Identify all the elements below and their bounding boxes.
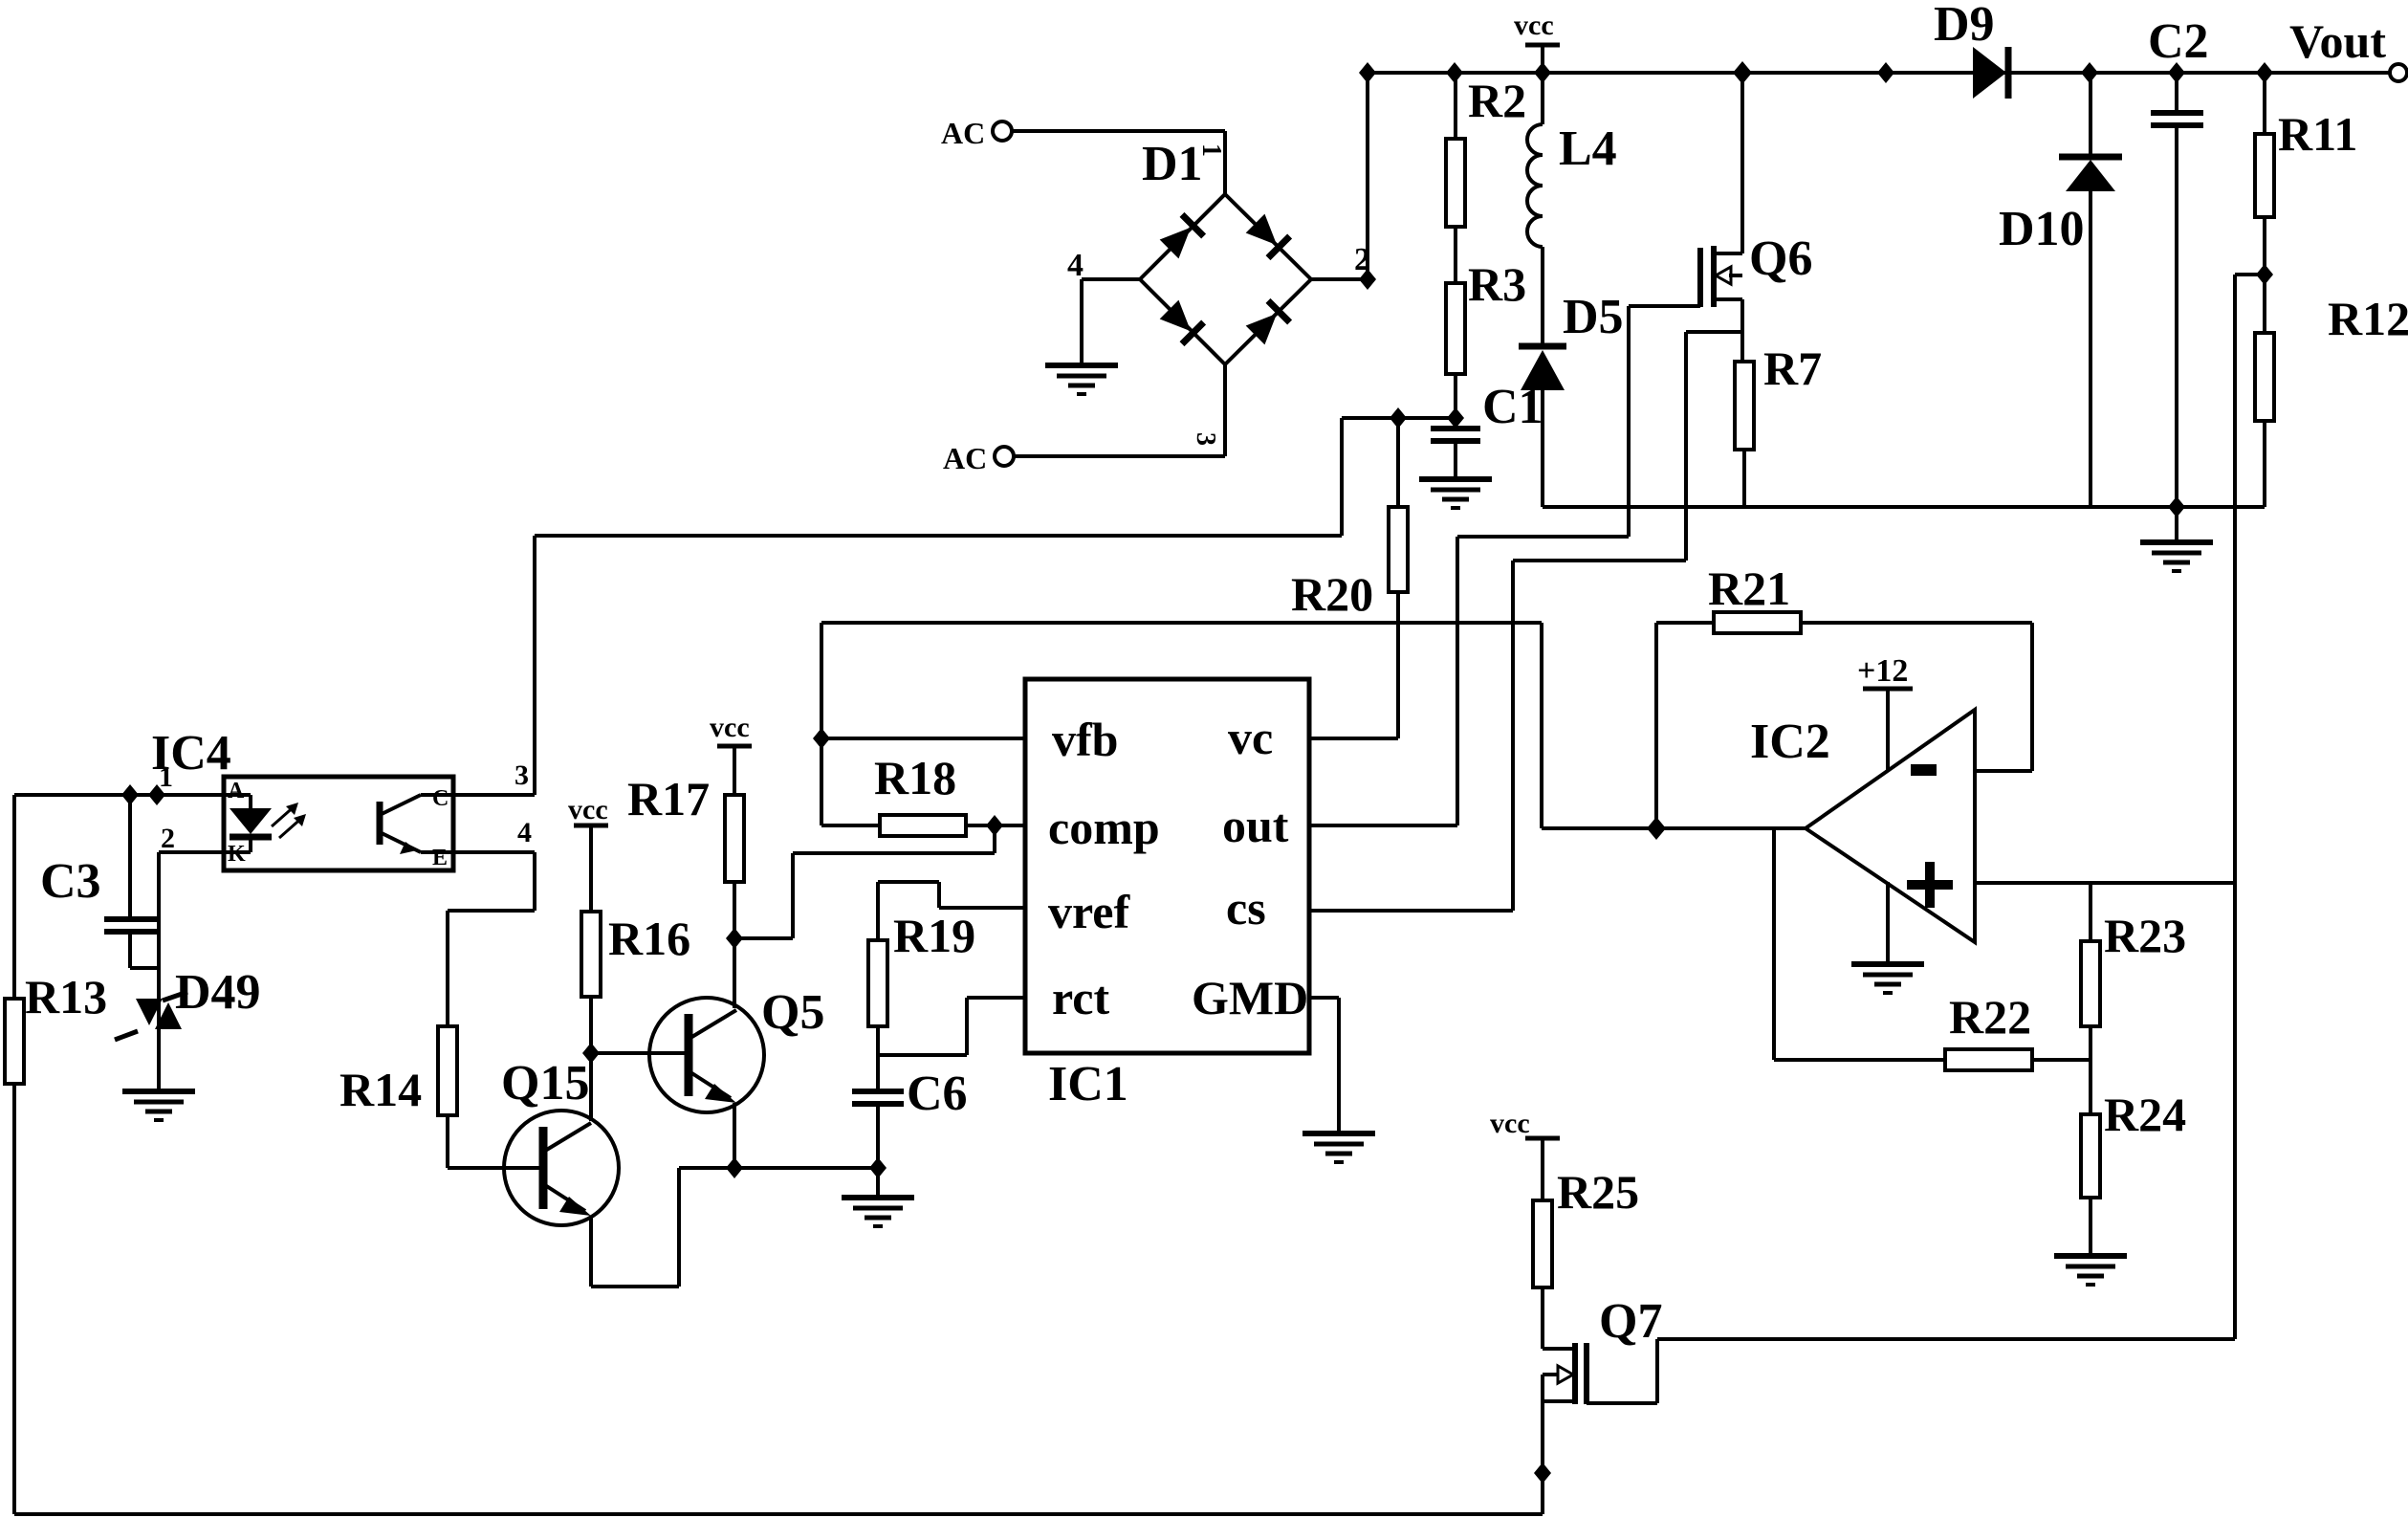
svg-text:R18: R18 [874, 751, 956, 804]
svg-text:D10: D10 [1999, 202, 2085, 256]
wire Q15 collector to Q5 base [591, 1051, 686, 1055]
resistor R20 [1291, 418, 1408, 738]
junction Q7-rail [1534, 1463, 1551, 1484]
bridge diode D1b top-right [1244, 212, 1289, 257]
svg-text:4: 4 [1067, 248, 1084, 283]
svg-text:vcc: vcc [710, 712, 750, 743]
capacitor C6 [852, 1067, 968, 1168]
bridge diode D1c bottom-left [1158, 298, 1203, 343]
resistor R25 [1533, 1138, 1639, 1349]
resistor R14 [339, 911, 457, 1168]
inductor L4 [1527, 73, 1617, 247]
svg-text:+12: +12 [1857, 653, 1908, 689]
svg-text:R25: R25 [1557, 1165, 1639, 1219]
junction bus-D10 [2081, 62, 2098, 83]
IC2 ground stem [1886, 882, 1890, 964]
wire Q6 gate lead [1629, 304, 1700, 308]
wire bridge pin4 out [1082, 277, 1140, 281]
svg-text:4: 4 [517, 817, 532, 848]
resistor R2 [1446, 73, 1526, 227]
svg-text:R22: R22 [1949, 990, 2031, 1044]
wire vcc stem [1541, 45, 1544, 73]
capacitor C2 [2148, 14, 2209, 507]
svg-text:3: 3 [514, 759, 529, 791]
wire divider feedback drop [2233, 275, 2237, 1339]
bottom return rail [14, 1512, 1543, 1516]
node 1 wire [14, 793, 224, 797]
svg-text:C2: C2 [2148, 14, 2209, 69]
IC4 pin3 wire to C1 node [453, 793, 535, 797]
svg-text:R24: R24 [2104, 1088, 2186, 1141]
zener D49 [115, 852, 261, 1091]
svg-text:C6: C6 [907, 1067, 968, 1121]
svg-text:R3: R3 [1468, 257, 1526, 311]
transistor Q15 [501, 1056, 619, 1225]
R22 left riser [1772, 828, 1776, 1060]
resistor R18 [821, 751, 995, 836]
svg-text:comp: comp [1048, 801, 1160, 854]
junction comp-node [986, 815, 1003, 836]
svg-text:R2: R2 [1468, 74, 1526, 127]
junction bus-a [1877, 62, 1894, 83]
transistor Q7 (MOSFET) [1543, 1294, 1662, 1404]
svg-text:vcc: vcc [568, 794, 608, 825]
wire Q5 collector [733, 938, 736, 1008]
svg-text:vfb: vfb [1052, 713, 1118, 766]
wire L4 to D5 [1541, 247, 1544, 346]
wire Q6 source [1740, 299, 1744, 362]
resistor R22 [1774, 990, 2091, 1070]
junction C1-node [1447, 407, 1464, 429]
R21 left drop to output node [1654, 623, 1658, 828]
svg-text:IC2: IC2 [1750, 715, 1830, 769]
wire bridge pin2 to riser [1311, 277, 1368, 281]
svg-text:vref: vref [1048, 885, 1130, 938]
svg-text:R7: R7 [1763, 341, 1822, 395]
R21 right to inverting input [2030, 623, 2034, 771]
R19 to C6 [876, 1026, 880, 1091]
svg-text:rct: rct [1052, 971, 1109, 1024]
resistor R7 [1735, 341, 1822, 507]
svg-text:C3: C3 [40, 854, 101, 909]
svg-text:Q6: Q6 [1749, 231, 1812, 286]
IC1 pin labels [1048, 711, 1308, 1024]
junction n1-C3 [121, 784, 139, 805]
junction C1wire-R20 [1390, 407, 1407, 429]
wire AC1 to bridge [1012, 129, 1225, 133]
ground C1 [1419, 479, 1492, 508]
svg-text:R21: R21 [1708, 561, 1790, 615]
IC4 light arrows [272, 803, 306, 838]
ground D49 [122, 1091, 195, 1120]
resistor R19 [868, 909, 975, 1026]
svg-text:3: 3 [1191, 432, 1220, 446]
junction n1-b [148, 784, 165, 805]
wire D5 to rail [1541, 390, 1544, 507]
svg-text:R23: R23 [2104, 909, 2186, 962]
transistor Q6 (MOSFET) [1700, 231, 1812, 307]
resistor R23 [2081, 883, 2186, 1060]
Q7 gate wire to divider [1587, 1401, 1657, 1405]
svg-text:vc: vc [1228, 711, 1273, 764]
IC4 pin numbers [159, 759, 532, 854]
wire IC4 pin2 [159, 850, 224, 854]
bridge rectifier D1 outline [1140, 137, 1311, 364]
IC U IC1 box [1025, 679, 1309, 1111]
vfb feedback riser [820, 623, 823, 825]
wire Q5 emitter [733, 1103, 736, 1168]
svg-text:R17: R17 [627, 772, 710, 825]
op-amp IC2 [1750, 710, 1975, 942]
wire Q15 collector [589, 1053, 593, 1121]
junction C6-gnd [869, 1157, 887, 1178]
ground C6 [842, 1198, 914, 1226]
emitter common wire [679, 1166, 878, 1170]
IC4 pin4 wire to R14 [453, 850, 535, 854]
rct wire [967, 996, 1025, 1000]
power +12 [1857, 653, 1913, 770]
junction vfb-node [813, 728, 830, 749]
resistor R16 [581, 825, 690, 1053]
svg-text:R14: R14 [339, 1063, 422, 1116]
resistor R11 [2255, 73, 2357, 275]
svg-text:vcc: vcc [1490, 1108, 1530, 1139]
capacitor C1 [1431, 380, 1543, 479]
cs wire to Q6 source [1309, 909, 1513, 913]
terminal AC top [941, 116, 1012, 150]
junction bus-left [1359, 62, 1376, 83]
wire AC2 to bridge [1014, 454, 1225, 458]
svg-text:D9: D9 [1934, 0, 1995, 52]
vfb wire [821, 737, 1025, 740]
power vcc R17 [710, 712, 752, 746]
IC4 phototransistor [380, 786, 453, 870]
wire riser to top bus [1366, 73, 1369, 279]
transistor Q5 [649, 985, 824, 1112]
junction bus-L4 [1534, 62, 1551, 83]
wire divider jog [2235, 273, 2265, 276]
resistor R13 [5, 795, 107, 1514]
wire R2-R3 link [1454, 227, 1457, 283]
resistor R12 [2255, 275, 2408, 507]
wire top bus VCC rail [1368, 71, 2391, 75]
junction Q5c-R17 [726, 928, 743, 949]
wire bridge pin3 rise [1223, 364, 1227, 456]
svg-text:Vout: Vout [2289, 14, 2386, 68]
svg-text:D5: D5 [1563, 290, 1624, 344]
svg-text:1: 1 [159, 761, 173, 793]
Q7 body/source to bottom rail [1541, 1375, 1544, 1514]
svg-text:R19: R19 [893, 909, 975, 962]
vref wire [939, 906, 1025, 910]
svg-text:Q5: Q5 [761, 985, 824, 1040]
svg-text:cs: cs [1226, 881, 1266, 935]
ground bridge [1045, 365, 1118, 394]
junction bus-C2 [2168, 62, 2185, 83]
svg-text:R11: R11 [2278, 107, 2357, 161]
junction out-node-ic2 [1647, 817, 1666, 840]
bridge pin labels [1067, 143, 1370, 446]
svg-text:D1: D1 [1142, 137, 1203, 191]
svg-text:out: out [1222, 799, 1289, 852]
junction bus-R2 [1446, 62, 1463, 83]
diode D9 [1934, 0, 2008, 99]
plus input wire [1975, 881, 2235, 885]
wire Q5 collector to comp [734, 936, 793, 940]
junction bus-Q6 [1733, 61, 1752, 84]
IC4 LED [224, 779, 272, 867]
resistor R3 [1446, 257, 1526, 418]
capacitor C3 [40, 795, 159, 968]
svg-text:K: K [228, 842, 246, 867]
ground IC2 [1851, 964, 1924, 993]
comp wire [995, 824, 1025, 827]
power vcc top [1514, 10, 1560, 45]
svg-text:IC1: IC1 [1048, 1057, 1128, 1111]
bridge diode D1a top-left [1158, 214, 1203, 259]
svg-text:vcc: vcc [1514, 10, 1554, 41]
ground IC1 [1303, 1133, 1375, 1162]
svg-text:R16: R16 [608, 912, 690, 965]
svg-text:R13: R13 [25, 970, 107, 1023]
junction C2-gnd [2168, 496, 2185, 517]
optocoupler IC4 [151, 726, 453, 870]
vfb long wire to IC2 [821, 621, 1542, 625]
wire R14 to Q15 base [448, 1166, 540, 1170]
ground R24 [2054, 1256, 2127, 1285]
svg-text:1: 1 [1196, 143, 1226, 157]
svg-text:Q7: Q7 [1599, 1294, 1662, 1349]
wire C2 gnd stem [2175, 507, 2178, 542]
svg-text:C: C [432, 786, 449, 811]
wire Q6 drain [1740, 73, 1744, 253]
junction bus-R11 [2256, 62, 2273, 83]
svg-text:R20: R20 [1291, 567, 1373, 621]
wire C6 gnd stem [876, 1168, 880, 1198]
power vcc R16 [568, 794, 608, 825]
resistor R21 [1656, 561, 2032, 633]
svg-text:L4: L4 [1559, 121, 1617, 176]
wire bridge pin1 drop [1223, 131, 1227, 194]
junction R11-R12 [2256, 264, 2273, 285]
resistor R24 [2081, 1060, 2186, 1253]
svg-text:E: E [432, 846, 448, 870]
svg-text:D49: D49 [175, 965, 261, 1020]
svg-text:GMD: GMD [1192, 971, 1308, 1024]
junction bridge-2 [1359, 269, 1376, 290]
svg-text:AC: AC [941, 116, 985, 150]
bridge diode D1d bottom-right [1244, 300, 1289, 345]
GMD ground wire [1309, 996, 1339, 1000]
diode D10 [1999, 73, 2122, 507]
Q15 emitter path [589, 1216, 593, 1287]
svg-text:2: 2 [161, 823, 175, 854]
vc wire to R20 [1309, 737, 1398, 740]
wire secondary rail [1543, 505, 2265, 509]
junction Q15c-R16 [582, 1043, 600, 1064]
ground C2 [2140, 542, 2213, 571]
svg-text:AC: AC [943, 441, 987, 475]
svg-text:R12: R12 [2328, 292, 2408, 345]
diode D5 [1519, 290, 1624, 390]
wire bridge pin4 drop [1080, 279, 1084, 363]
junction Q5e [726, 1157, 743, 1178]
terminal Vout [2289, 14, 2407, 81]
svg-text:A: A [228, 779, 245, 803]
out wire to Q6 gate [1309, 824, 1457, 827]
resistor R17 [627, 746, 744, 938]
power vcc R25 [1490, 1108, 1560, 1139]
svg-text:Q15: Q15 [501, 1056, 589, 1111]
terminal AC bottom [943, 441, 1014, 475]
